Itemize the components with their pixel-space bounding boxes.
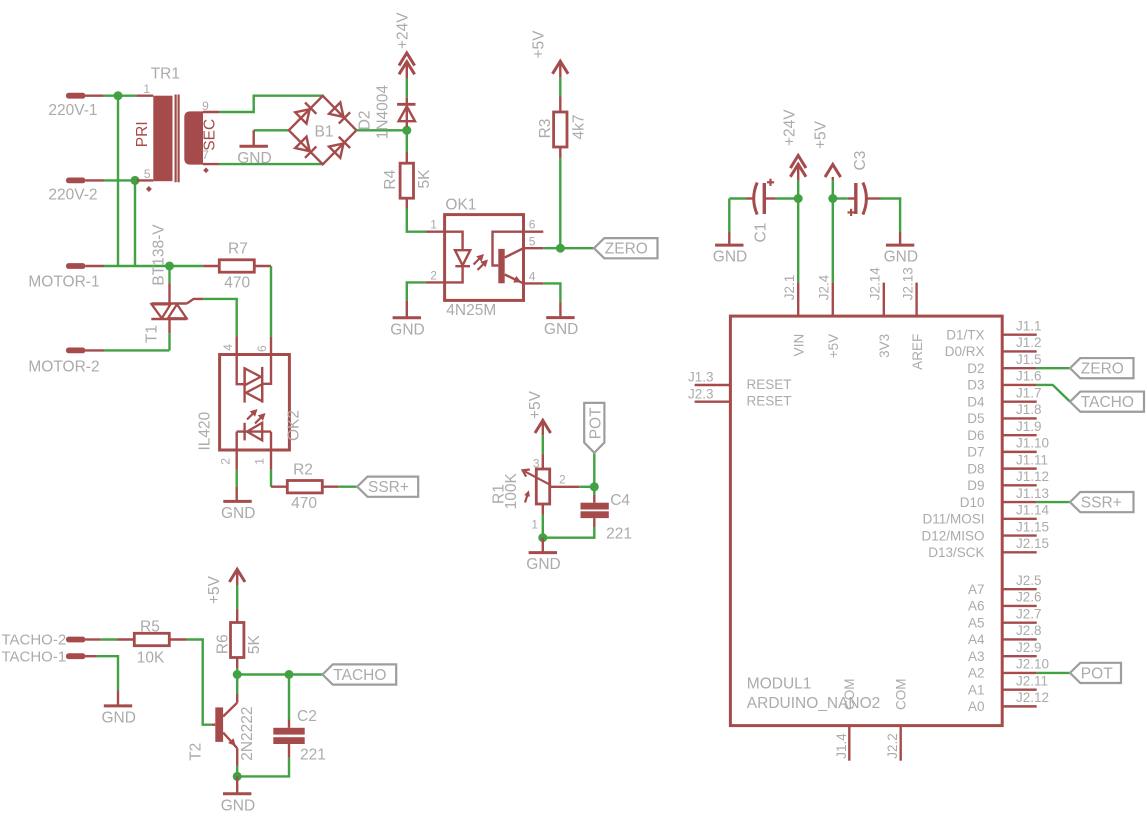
svg-text:220V-1: 220V-1 xyxy=(48,102,97,119)
svg-text:PRI: PRI xyxy=(134,121,151,147)
svg-text:J2.1: J2.1 xyxy=(782,275,797,301)
module right pin J1.12 D9 xyxy=(1002,484,1037,486)
svg-text:C4: C4 xyxy=(610,492,630,509)
svg-text:ARDUINO_NANO2: ARDUINO_NANO2 xyxy=(747,695,881,712)
wire node to TACHO flag xyxy=(289,673,323,675)
module right pin J1.9 D6 xyxy=(1002,434,1037,436)
wire +5V to R3 xyxy=(559,61,561,78)
resistor R7 xyxy=(219,260,254,272)
T1 gate xyxy=(187,299,203,304)
svg-text:J2.15: J2.15 xyxy=(1016,536,1049,551)
OK1 pin 4 xyxy=(524,282,544,284)
module MODUL1 ARDUINO_NANO2 xyxy=(730,316,1002,725)
supply +5V at R3 xyxy=(553,61,569,74)
svg-text:GND: GND xyxy=(544,321,578,338)
svg-text:5: 5 xyxy=(144,167,151,181)
svg-text:GND: GND xyxy=(526,556,560,573)
svg-text:R7: R7 xyxy=(228,241,248,258)
module top pin J2.13 AREF xyxy=(915,283,917,317)
OK1 internal LED xyxy=(445,232,463,251)
TR1 primary winding xyxy=(153,96,172,182)
module left pin J2.3 RESET xyxy=(695,401,731,403)
capacitor C1 xyxy=(729,197,746,199)
module right pin J2.5 A7 xyxy=(1002,588,1037,590)
svg-text:6: 6 xyxy=(255,345,269,352)
svg-text:2N2222: 2N2222 xyxy=(239,707,256,761)
module right pin J1.6 D3 xyxy=(1002,384,1037,386)
svg-text:1: 1 xyxy=(531,518,538,532)
svg-text:+5V: +5V xyxy=(527,390,544,419)
svg-text:C3: C3 xyxy=(852,151,869,171)
wire MOTOR-1 row xyxy=(85,265,104,267)
svg-text:3: 3 xyxy=(533,456,540,470)
svg-text:B1: B1 xyxy=(315,124,334,141)
wire D2 node to diode xyxy=(406,127,408,130)
ground symbol OK1 pin4 xyxy=(543,283,560,302)
module top pin J2.1 VIN xyxy=(797,283,799,317)
wire +24V down to module VIN xyxy=(797,164,799,180)
module right pin J2.11 A1 xyxy=(1002,688,1037,690)
junction node C2/TACHO xyxy=(285,670,294,679)
optocoupler OK1 xyxy=(445,215,524,301)
module right pin J1.14 D11/MOSI xyxy=(1002,518,1037,520)
transistor T2 2N2222 xyxy=(215,707,223,742)
module bottom pin J1.4 COM xyxy=(848,726,850,761)
module right pin J1.7 D4 xyxy=(1002,400,1037,402)
wire vertical 220V-2 down to T1 row xyxy=(134,180,136,266)
svg-text:A1: A1 xyxy=(968,682,985,697)
svg-text:6: 6 xyxy=(529,218,536,232)
svg-text:GND: GND xyxy=(884,249,918,266)
module right pin J2.6 A6 xyxy=(1002,605,1037,607)
capacitor C4 xyxy=(581,503,609,510)
svg-text:ZERO: ZERO xyxy=(605,241,648,258)
wire C3 to GND xyxy=(866,197,881,199)
svg-text:GND: GND xyxy=(221,797,255,814)
wire R7 to OK2 pin6 xyxy=(270,266,272,337)
R1 wiper arrow xyxy=(525,471,551,485)
svg-text:J2.11: J2.11 xyxy=(1016,673,1048,688)
svg-text:TACHO-2: TACHO-2 xyxy=(1,632,66,649)
svg-text:221: 221 xyxy=(606,526,632,543)
wire node to T2 collector xyxy=(236,675,238,695)
svg-text:A5: A5 xyxy=(968,615,985,630)
svg-text:RESET: RESET xyxy=(747,377,792,392)
svg-text:D9: D9 xyxy=(967,478,984,493)
wire 220V-2 pad stub xyxy=(85,179,104,181)
wire net 220V-1 to TR1 pin1 xyxy=(104,94,137,96)
svg-text:+5V: +5V xyxy=(826,334,841,358)
wire bridge right to D2 node xyxy=(356,129,406,131)
module right pin J1.5 D2 xyxy=(1002,367,1037,369)
bridge rectifier B1 xyxy=(289,96,357,165)
svg-text:J1.7: J1.7 xyxy=(1016,385,1042,400)
wire TACHO-2 to R5 xyxy=(85,638,101,640)
wire R4 to OK1 pin1 xyxy=(406,198,408,208)
B1 diode top-left xyxy=(295,109,309,123)
svg-text:TR1: TR1 xyxy=(151,65,180,82)
module right pin J1.11 D8 xyxy=(1002,467,1037,469)
svg-text:GND: GND xyxy=(237,150,271,167)
TR1 secondary winding xyxy=(184,111,203,164)
svg-text:RESET: RESET xyxy=(747,394,792,409)
supply +5V right xyxy=(825,165,841,178)
svg-text:A6: A6 xyxy=(968,599,985,614)
svg-text:TACHO: TACHO xyxy=(333,667,386,684)
C3 plus sign xyxy=(848,211,855,213)
connector pad MOTOR-1 xyxy=(66,263,85,269)
svg-text:J1.12: J1.12 xyxy=(1016,469,1049,484)
svg-text:4k7: 4k7 xyxy=(570,115,587,140)
svg-text:2: 2 xyxy=(218,458,232,465)
svg-text:5: 5 xyxy=(529,234,536,248)
svg-text:A2: A2 xyxy=(968,666,985,681)
module bottom pin J2.2 COM xyxy=(900,726,902,761)
junction node R6/T2 xyxy=(233,670,242,679)
wire T1 MT1 to MOTOR-2 xyxy=(168,319,170,333)
svg-text:MODUL1: MODUL1 xyxy=(747,676,812,693)
wire +5V down to module xyxy=(832,177,834,180)
svg-text:D1/TX: D1/TX xyxy=(946,328,984,343)
svg-text:D6: D6 xyxy=(967,428,984,443)
wire R1 pin1 down xyxy=(542,504,544,515)
svg-text:J1.6: J1.6 xyxy=(1016,369,1042,384)
ground symbol T2 xyxy=(236,776,238,793)
svg-text:GND: GND xyxy=(713,249,747,266)
svg-text:T2: T2 xyxy=(188,743,205,761)
wire R2 to SSR+ xyxy=(322,486,339,488)
capacitor C3 xyxy=(833,197,848,199)
svg-text:SEC: SEC xyxy=(201,119,218,151)
svg-text:AREF: AREF xyxy=(910,334,925,370)
svg-text:D4: D4 xyxy=(967,394,985,409)
svg-text:5K: 5K xyxy=(416,169,433,189)
module right pin J2.7 A5 xyxy=(1002,621,1037,623)
svg-text:J1.9: J1.9 xyxy=(1016,419,1042,434)
svg-text:SSR+: SSR+ xyxy=(1081,495,1122,512)
svg-text:C1: C1 xyxy=(753,223,770,243)
ground symbol TACHO-1 xyxy=(104,704,132,707)
wire R5 to T2 base xyxy=(169,638,186,640)
wire T1 MT2 xyxy=(168,266,170,283)
wire node to C4 xyxy=(593,487,595,495)
wire A2 to POT flag xyxy=(1037,672,1070,674)
wire C4 to GND corner xyxy=(593,518,595,527)
junction node T2 emitter xyxy=(233,772,242,781)
svg-text:R5: R5 xyxy=(140,619,160,636)
junction node R1/C4 gnd xyxy=(538,533,547,542)
wire MOTOR-2 pad stub xyxy=(85,349,104,351)
resistor R3 xyxy=(554,112,567,147)
svg-text:4: 4 xyxy=(529,269,536,283)
wire T2 emitter down xyxy=(236,748,238,765)
svg-text:D2: D2 xyxy=(356,110,373,130)
svg-text:4N25M: 4N25M xyxy=(446,302,496,319)
supply +24V xyxy=(399,53,415,66)
OK1 phototransistor xyxy=(493,232,524,266)
svg-text:OK1: OK1 xyxy=(445,196,476,213)
connector pad 220V-2 xyxy=(66,178,85,184)
connector pad TACHO-2 xyxy=(66,637,85,643)
TR1 pin 1 xyxy=(136,94,153,96)
svg-text:C2: C2 xyxy=(297,708,317,725)
module right pin J1.8 D5 xyxy=(1002,417,1037,419)
svg-text:J2.7: J2.7 xyxy=(1016,606,1042,621)
wire R1 wiper to POT node xyxy=(550,486,580,488)
svg-text:J1.15: J1.15 xyxy=(1016,519,1049,534)
svg-text:D13/SCK: D13/SCK xyxy=(928,545,984,560)
svg-text:J1.8: J1.8 xyxy=(1016,402,1042,417)
supply +5V at R1 xyxy=(535,420,551,433)
net label ZERO xyxy=(594,238,658,258)
svg-text:D10: D10 xyxy=(960,495,985,510)
ground symbol C3 xyxy=(886,244,914,247)
net label TACHO xyxy=(323,664,397,684)
optocoupler OK2 xyxy=(220,355,290,451)
svg-text:J2.13: J2.13 xyxy=(900,267,915,300)
svg-text:R3: R3 xyxy=(537,119,554,139)
B1 diode bottom-left xyxy=(295,137,309,151)
svg-text:J1.13: J1.13 xyxy=(1016,486,1049,501)
svg-text:2: 2 xyxy=(559,473,566,487)
wire SEC pin9 to bridge top xyxy=(220,96,323,112)
svg-text:J1.4: J1.4 xyxy=(834,733,849,759)
module top pin J2.4 +5V xyxy=(832,283,834,317)
svg-text:D0/RX: D0/RX xyxy=(945,344,985,359)
OK2 light arrows xyxy=(247,414,253,420)
wire D10 to SSR+ flag xyxy=(1037,501,1070,503)
C1 plus sign xyxy=(767,181,774,183)
wire +5V to R6 xyxy=(236,569,238,585)
svg-text:POT: POT xyxy=(1081,665,1113,682)
resistor R5 xyxy=(134,633,169,645)
svg-text:+5V: +5V xyxy=(531,30,548,59)
svg-text:SSR+: SSR+ xyxy=(368,479,409,496)
svg-text:+5V: +5V xyxy=(206,575,223,604)
junction node 220V-1 xyxy=(114,91,123,100)
junction node ZERO xyxy=(556,244,565,253)
svg-text:5K: 5K xyxy=(246,634,263,654)
svg-text:D12/MISO: D12/MISO xyxy=(921,528,984,543)
wire T1 gate to OK2 pin4 xyxy=(203,299,236,336)
svg-text:1: 1 xyxy=(430,218,437,232)
svg-text:J2.9: J2.9 xyxy=(1016,640,1042,655)
svg-text:J2.8: J2.8 xyxy=(1016,623,1042,638)
svg-text:J2.6: J2.6 xyxy=(1016,590,1042,605)
svg-text:D2: D2 xyxy=(967,361,984,376)
junction node T1/R7 xyxy=(165,262,174,271)
svg-text:+24V: +24V xyxy=(782,109,799,146)
svg-text:R6: R6 xyxy=(215,634,232,654)
wire node to ZERO flag xyxy=(560,247,594,249)
svg-text:4: 4 xyxy=(221,344,235,351)
wire TACHO-1 to GND xyxy=(85,655,96,657)
wire vertical 220V-1 to MOTOR-1 row xyxy=(117,96,119,266)
net label ZERO right xyxy=(1070,358,1134,378)
capacitor C2 xyxy=(288,675,290,720)
svg-text:100K: 100K xyxy=(503,473,520,510)
svg-text:J2.5: J2.5 xyxy=(1016,573,1042,588)
OK1 pin 2 xyxy=(426,281,445,283)
wire R6 to collector node xyxy=(236,658,238,669)
connector pad MOTOR-2 xyxy=(66,348,85,354)
wire D2 to ZERO flag xyxy=(1037,367,1070,369)
net label SSR+ right xyxy=(1070,492,1134,512)
resistor R6 xyxy=(231,623,244,658)
module right pin J2.10 A2 xyxy=(1002,672,1037,674)
B1 diode bottom-right xyxy=(329,143,343,157)
svg-text:R2: R2 xyxy=(293,462,313,479)
svg-text:GND: GND xyxy=(390,321,424,338)
svg-text:1N4004: 1N4004 xyxy=(374,85,391,140)
svg-text:1: 1 xyxy=(143,82,150,96)
svg-text:J1.2: J1.2 xyxy=(1016,335,1042,350)
net label POT right xyxy=(1070,663,1121,683)
svg-text:MOTOR-2: MOTOR-2 xyxy=(28,359,99,376)
svg-text:470: 470 xyxy=(224,275,250,292)
svg-text:J1.10: J1.10 xyxy=(1016,436,1049,451)
module right pin J1.10 D7 xyxy=(1002,451,1037,453)
OK1 light arrows xyxy=(474,259,480,265)
TR1 core xyxy=(175,95,177,183)
wire +5V to R1 xyxy=(542,420,544,435)
net label SSR+ xyxy=(357,477,418,497)
svg-text:3V3: 3V3 xyxy=(877,334,892,358)
triac T1 xyxy=(151,302,187,304)
svg-text:J1.3: J1.3 xyxy=(688,370,714,385)
svg-text:9: 9 xyxy=(202,99,209,113)
svg-text:A7: A7 xyxy=(968,582,985,597)
svg-text:GND: GND xyxy=(221,505,255,522)
OK2 internal triac xyxy=(237,355,245,385)
wire GND to bridge left xyxy=(254,129,289,131)
svg-text:J1.14: J1.14 xyxy=(1016,503,1050,518)
svg-text:J2.14: J2.14 xyxy=(868,267,883,301)
svg-text:A4: A4 xyxy=(968,632,985,647)
wire node to POT flag xyxy=(593,453,595,487)
svg-text:+24V: +24V xyxy=(394,12,411,49)
wire node to C2 node xyxy=(237,673,289,675)
svg-text:MOTOR-1: MOTOR-1 xyxy=(28,274,99,291)
supply +5V at R6 xyxy=(229,569,245,582)
svg-text:TACHO: TACHO xyxy=(1081,394,1134,411)
svg-text:J1.1: J1.1 xyxy=(1016,318,1042,333)
svg-text:J1.11: J1.11 xyxy=(1016,452,1048,467)
wire D2 to +24V supply xyxy=(406,97,408,104)
TR1 polarity dot pin7 xyxy=(203,168,209,174)
module right pin J2.8 A4 xyxy=(1002,638,1037,640)
svg-text:GND: GND xyxy=(102,710,136,727)
wire net 220V-2 to TR1 pin5 xyxy=(104,179,137,181)
connector pad TACHO-1 xyxy=(66,653,85,659)
svg-text:221: 221 xyxy=(300,747,326,764)
svg-text:TACHO-1: TACHO-1 xyxy=(1,648,66,665)
svg-text:POT: POT xyxy=(588,407,605,439)
ground symbol R1 xyxy=(542,538,544,553)
B1 diode top-right xyxy=(329,102,343,116)
svg-text:220V-2: 220V-2 xyxy=(48,186,97,203)
junction node POT xyxy=(590,482,599,491)
svg-text:D5: D5 xyxy=(967,411,984,426)
TR1 polarity dot pin5 xyxy=(146,186,152,192)
module right pin J1.15 D12/MISO xyxy=(1002,534,1037,536)
svg-text:7: 7 xyxy=(202,148,209,162)
wire OK1 pin5 to node xyxy=(543,247,560,249)
junction node +5V/C3 xyxy=(828,194,837,203)
svg-text:J2.2: J2.2 xyxy=(885,733,900,759)
module right pin J2.15 D13/SCK xyxy=(1002,551,1037,553)
svg-text:J2.12: J2.12 xyxy=(1016,690,1049,705)
ground symbol at bridge left xyxy=(252,130,254,146)
resistor R2 xyxy=(287,481,322,493)
svg-text:J2.4: J2.4 xyxy=(817,274,832,300)
svg-text:470: 470 xyxy=(291,495,317,512)
svg-text:A0: A0 xyxy=(968,699,985,714)
OK1 pin 1 xyxy=(426,230,445,232)
junction node 220V-2 xyxy=(131,176,140,185)
svg-text:R4: R4 xyxy=(382,169,399,189)
svg-text:COM: COM xyxy=(893,679,908,711)
ground symbol C1 xyxy=(728,199,730,233)
wire R7 pins xyxy=(203,265,219,267)
svg-text:J2.10: J2.10 xyxy=(1016,657,1049,672)
module right pin J2.9 A3 xyxy=(1002,655,1037,657)
svg-text:+5V: +5V xyxy=(813,120,830,149)
wire OK2 pin1 to R2 xyxy=(270,449,272,470)
svg-text:D7: D7 xyxy=(967,445,984,460)
svg-text:10K: 10K xyxy=(137,650,165,667)
wire R3 to ZERO node xyxy=(559,147,561,159)
wire 220V-1 pad stub xyxy=(85,94,103,96)
module top pin J2.14 3V3 xyxy=(883,283,885,317)
svg-text:IL420: IL420 xyxy=(197,411,214,450)
svg-text:1: 1 xyxy=(253,458,267,465)
TR1 pin 9 xyxy=(203,111,220,113)
svg-text:D8: D8 xyxy=(967,461,984,476)
module right pin J2.12 A0 xyxy=(1002,705,1037,707)
module right pin J1.2 D0/RX xyxy=(1002,350,1037,352)
diode D2 1N4004 xyxy=(406,104,408,127)
svg-text:J2.3: J2.3 xyxy=(688,386,714,401)
OK1 pin 6 xyxy=(524,230,544,232)
wire C1 to +24V node xyxy=(764,197,776,199)
junction node +24V/C1 xyxy=(794,194,803,203)
supply +24V right xyxy=(790,156,806,169)
wire D3 to TACHO flag xyxy=(1037,385,1070,402)
TR1 pin 7 xyxy=(203,163,220,165)
connector pad 220V-1 xyxy=(66,93,85,99)
junction node D2/R4 xyxy=(402,126,411,135)
svg-text:D3: D3 xyxy=(967,378,984,393)
svg-text:A3: A3 xyxy=(968,649,985,664)
svg-text:D11/MOSI: D11/MOSI xyxy=(922,512,984,527)
potentiometer R1 xyxy=(536,469,549,504)
wire emitter node to C2 bottom xyxy=(237,758,289,777)
net label TACHO right xyxy=(1070,392,1144,412)
svg-text:J1.5: J1.5 xyxy=(1016,352,1042,367)
OK2 internal LED xyxy=(237,430,271,432)
svg-text:VIN: VIN xyxy=(791,334,806,357)
net label POT xyxy=(584,403,604,453)
module right pin J1.1 D1/TX xyxy=(1002,334,1037,336)
svg-text:OK2: OK2 xyxy=(286,410,303,441)
svg-text:COM: COM xyxy=(842,679,857,711)
svg-text:2: 2 xyxy=(430,268,437,282)
svg-text:ZERO: ZERO xyxy=(1081,361,1124,378)
ground symbol OK1 pin2 xyxy=(407,282,426,300)
ground symbol OK2 pin2 xyxy=(235,449,237,470)
TR1 pin 5 xyxy=(137,179,154,181)
